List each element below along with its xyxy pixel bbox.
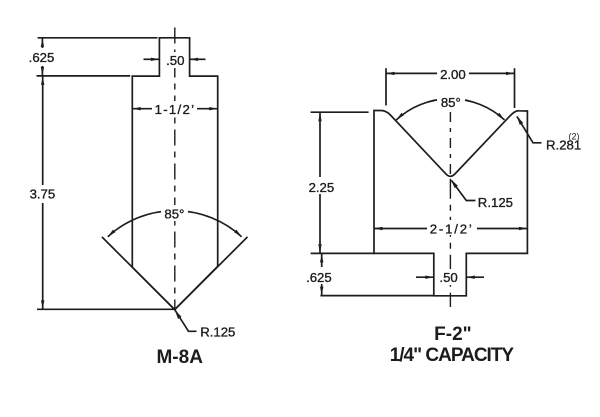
svg-text:(2): (2) xyxy=(569,132,580,142)
dimension .50 arrow left xyxy=(144,58,160,60)
dimension .50 die arrow right xyxy=(466,276,484,278)
svg-text:85°: 85° xyxy=(164,207,184,222)
arc arrowhead right xyxy=(234,230,242,237)
dimension line 1-1/2 xyxy=(132,108,217,110)
svg-text:2.25: 2.25 xyxy=(309,180,335,195)
svg-text:M-8A: M-8A xyxy=(156,347,203,368)
dimension line 2.00 xyxy=(386,72,515,74)
svg-text:1-1/2’: 1-1/2’ xyxy=(155,102,196,117)
dimension line .625 right xyxy=(321,254,323,295)
extension line shoulder left xyxy=(311,252,374,254)
punch outline xyxy=(132,38,217,310)
svg-text:3.75: 3.75 xyxy=(30,186,56,201)
arrow 2.00 right xyxy=(506,72,515,75)
arrow .625 down xyxy=(41,67,44,76)
arc arrowhead right die xyxy=(497,113,505,120)
text mask rectangles xyxy=(25,48,197,221)
extension line tang bottom xyxy=(320,295,433,297)
extension line 2.00 right xyxy=(514,68,516,108)
leader R.281 xyxy=(517,117,542,143)
arrow 2-1/2 left xyxy=(374,227,383,230)
centerline punch xyxy=(174,28,176,310)
centerline die lower xyxy=(449,179,451,307)
punch V face extension left xyxy=(102,237,175,310)
arrow 2.25 up xyxy=(318,113,321,122)
extension line shoulder xyxy=(37,75,131,77)
extension line 2.25 top xyxy=(311,111,369,113)
dimension .50 die arrow left xyxy=(416,276,434,278)
arrow .625 up xyxy=(41,38,44,47)
svg-text:.50: .50 xyxy=(439,270,457,285)
85 degree arc punch xyxy=(108,211,242,237)
svg-text:.625: .625 xyxy=(306,270,332,285)
dimension .50 arrow right xyxy=(190,58,206,60)
dimension line 2-1/2 xyxy=(374,228,527,230)
arrow .625r down xyxy=(320,287,323,296)
baseline reference line at tip xyxy=(37,308,175,310)
85 degree arc die xyxy=(396,99,504,120)
svg-text:.50: .50 xyxy=(166,53,184,68)
leader R.125 die vertex xyxy=(452,181,476,201)
svg-text:85°: 85° xyxy=(441,95,461,110)
leader R.125 punch tip xyxy=(175,310,197,332)
svg-text:R.125: R.125 xyxy=(478,195,513,210)
arrow 3.75 up xyxy=(41,76,44,85)
dimension line .625 xyxy=(41,38,43,75)
svg-text:.625: .625 xyxy=(29,50,55,65)
arrow 1-1/2 right xyxy=(209,107,218,110)
arrow 2-1/2 right xyxy=(519,227,528,230)
extension line 2.00 left xyxy=(385,68,387,105)
extension line tang top xyxy=(38,37,158,39)
text mask rectangles right xyxy=(301,66,477,285)
arc arrowhead left die xyxy=(396,113,404,120)
dimension line 2.25 xyxy=(319,113,321,253)
svg-text:2-1/2’: 2-1/2’ xyxy=(430,221,474,236)
arc arrowhead left xyxy=(108,230,116,237)
punch V face extension right xyxy=(175,237,248,310)
dimension line 3.75 xyxy=(42,76,44,309)
arrow 1-1/2 left xyxy=(132,107,141,110)
arrow 2.00 left xyxy=(386,72,395,75)
svg-text:F-2": F-2" xyxy=(434,324,472,345)
arrow 3.75 down xyxy=(41,300,44,309)
arrow 2.25 down xyxy=(318,244,321,253)
centerline die upper dashed xyxy=(449,112,451,178)
svg-text:1/4" CAPACITY: 1/4" CAPACITY xyxy=(390,345,515,366)
arrow .625r up xyxy=(320,254,323,263)
svg-text:2.00: 2.00 xyxy=(440,67,466,82)
svg-text:R.125: R.125 xyxy=(200,325,235,340)
die outline xyxy=(374,110,527,295)
